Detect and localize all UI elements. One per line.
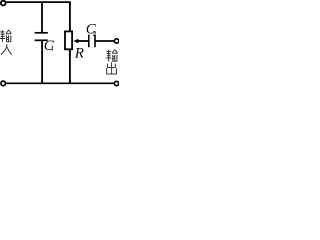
capacitor C1 top plate [35, 32, 48, 34]
wire bottom rail [6, 82, 114, 84]
label chu (output) 出 [107, 62, 117, 74]
wire top rail [6, 1, 71, 3]
label ru (input) 入 [1, 44, 12, 55]
terminal input bottom [1, 81, 6, 86]
wiper arrowhead [73, 39, 78, 43]
svg-text:2: 2 [93, 29, 97, 38]
terminal output bottom [114, 81, 118, 85]
label shu (input) 输 [0, 30, 11, 42]
resistor R body [65, 31, 72, 49]
terminal output top [114, 39, 118, 43]
label shu (output) 输 [106, 50, 117, 62]
svg-text:1: 1 [50, 44, 54, 53]
svg-text:R: R [74, 46, 84, 62]
wire C1 top stem [41, 2, 43, 33]
wire C2 to output [95, 40, 114, 42]
wiper wire [78, 40, 89, 42]
wire C1 bottom stem [41, 40, 43, 83]
capacitor C1 bottom plate [35, 39, 48, 41]
capacitor C2 right plate [94, 35, 96, 48]
terminal input top [1, 1, 6, 6]
wire top right vertical [69, 2, 71, 31]
wire resistor bottom [69, 49, 71, 83]
capacitor C2 left plate [88, 35, 90, 48]
